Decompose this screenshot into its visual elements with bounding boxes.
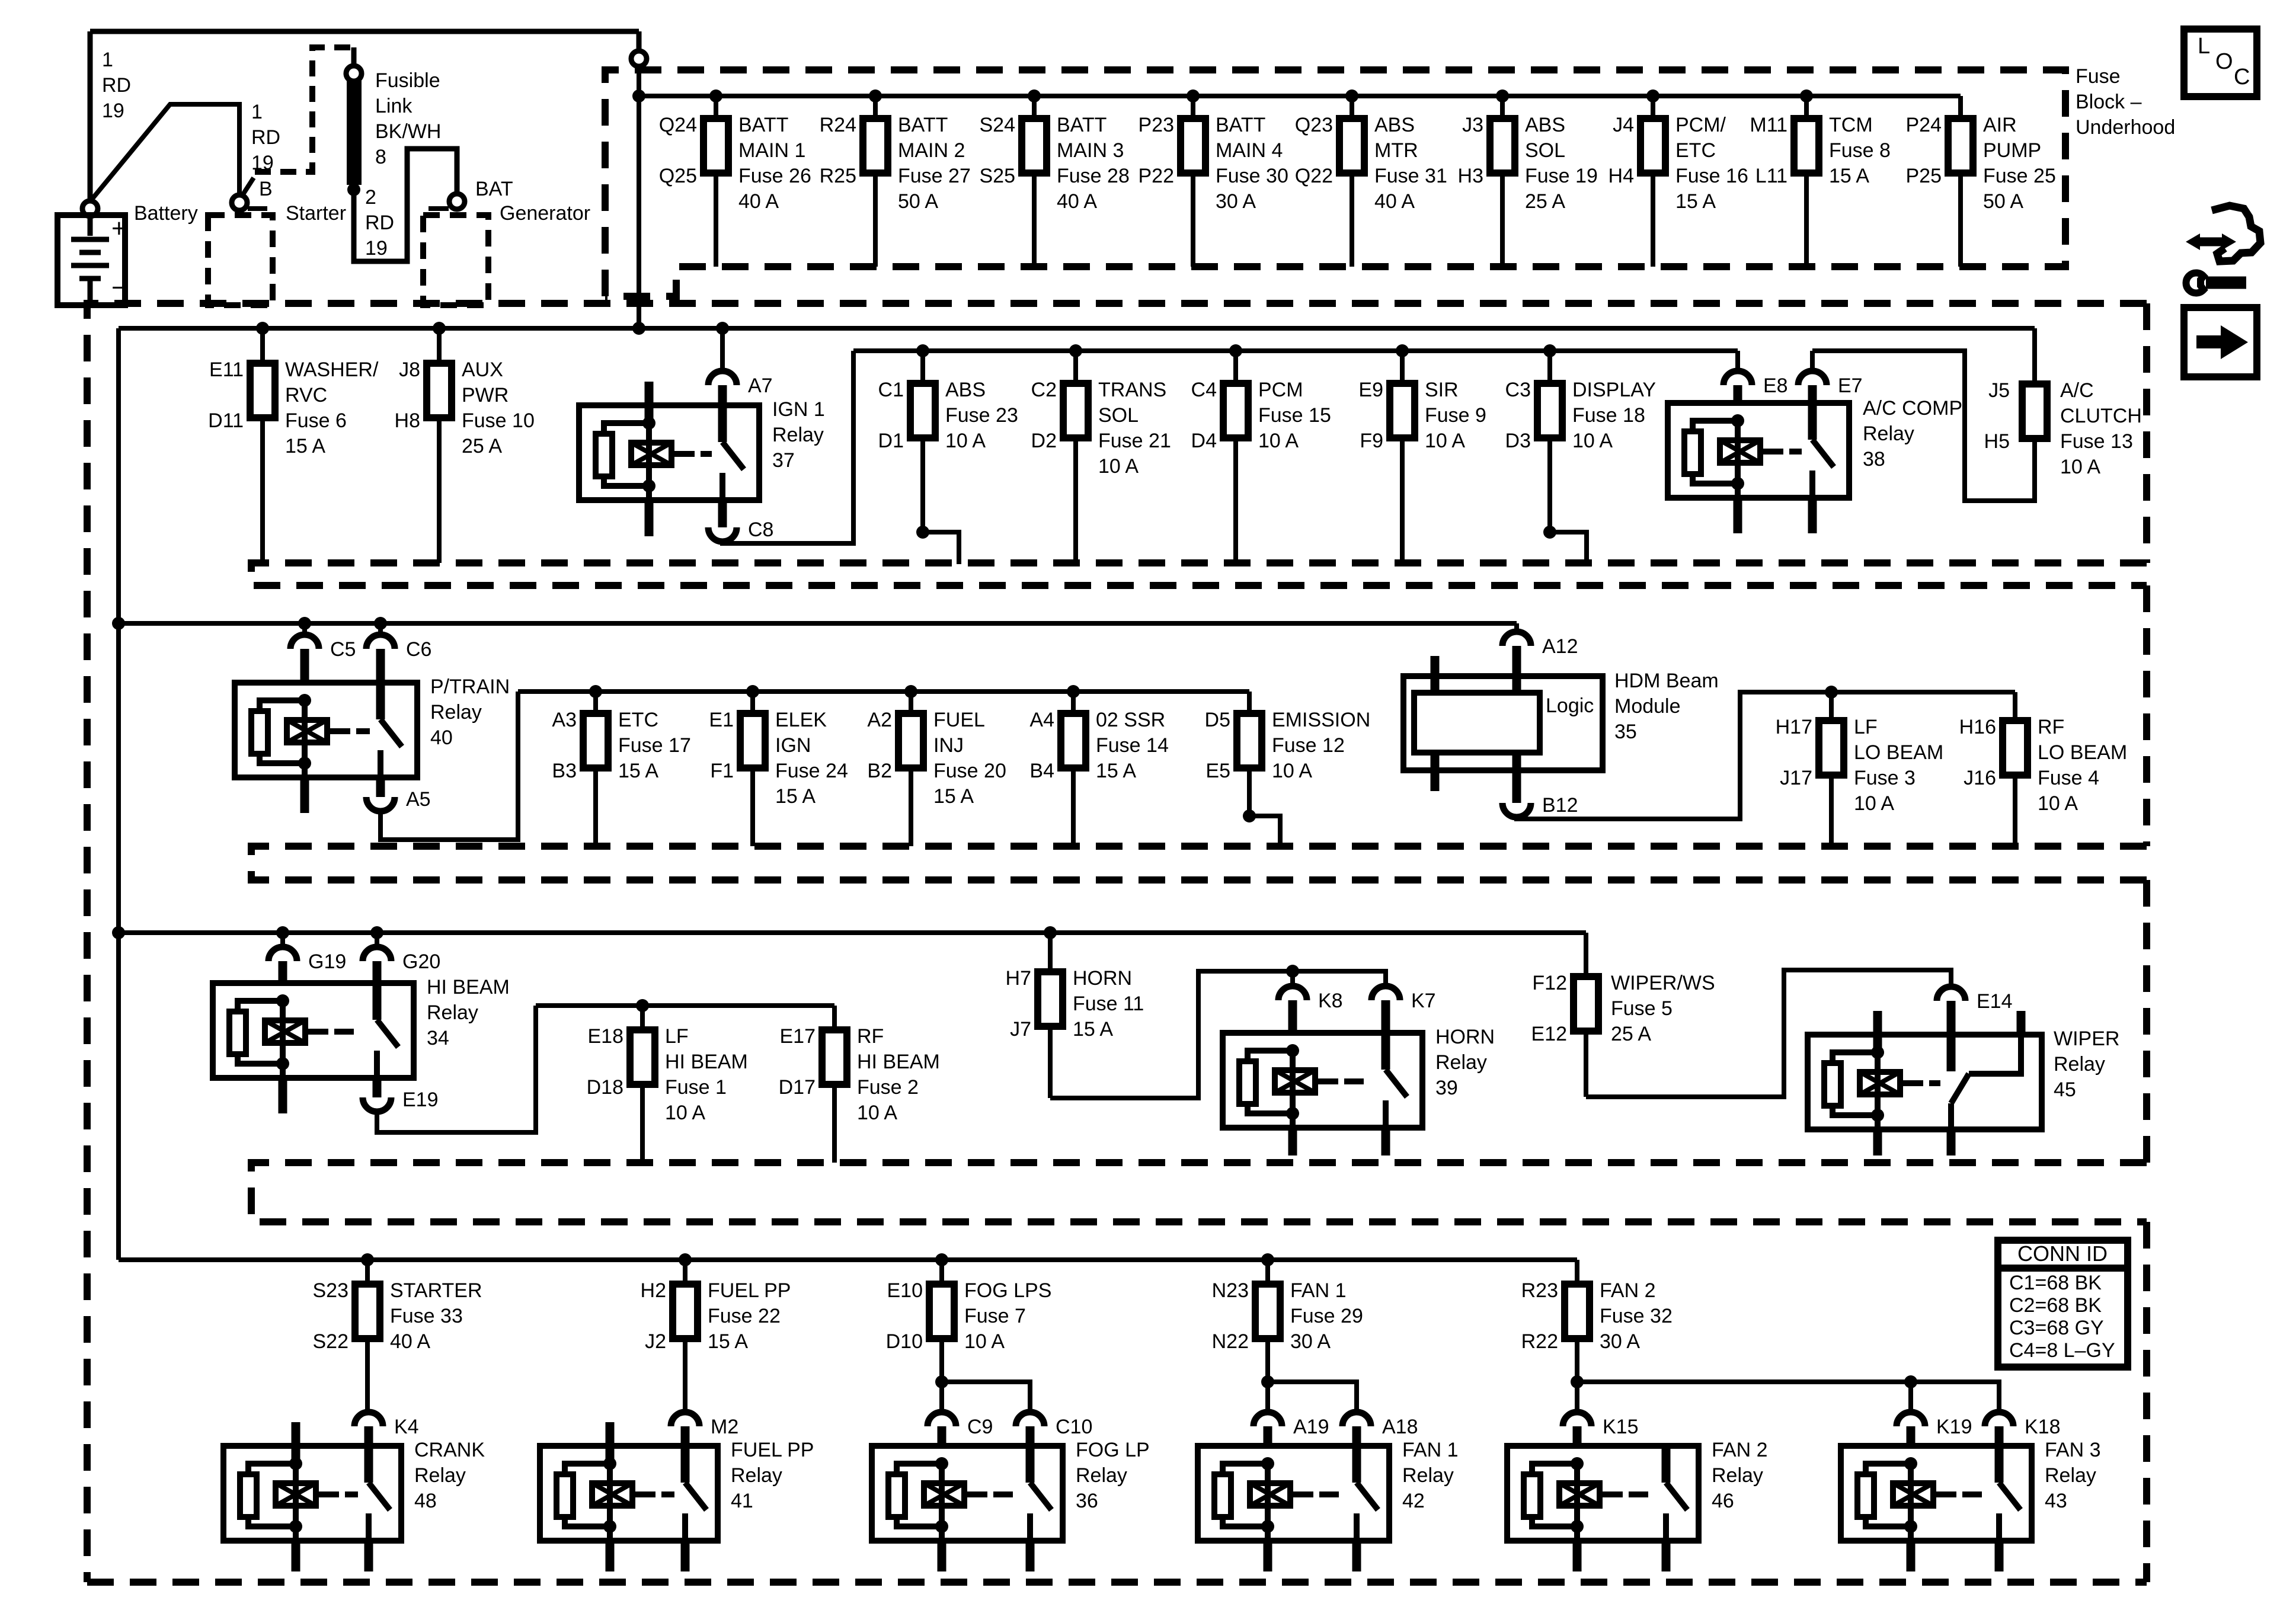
wire fan2 to fan3 feed xyxy=(1577,1375,1999,1412)
starter (dashed box) xyxy=(208,215,273,305)
label fuse 27 name xyxy=(898,114,971,213)
wire fuse 31 drop xyxy=(1345,89,1358,267)
svg-text:HDM Beam: HDM Beam xyxy=(1614,670,1719,692)
label fuse 25 name xyxy=(1983,114,2056,213)
svg-text:Fuse 4: Fuse 4 xyxy=(2038,767,2099,789)
wire fuse 19 drop xyxy=(1496,89,1509,267)
wire fuse 33 drop xyxy=(361,1253,374,1284)
label F6 pins xyxy=(208,359,244,432)
svg-text:15 A: 15 A xyxy=(708,1330,748,1353)
svg-text:S24: S24 xyxy=(980,114,1016,136)
svg-text:K19: K19 xyxy=(1936,1416,1972,1438)
fuse block outer dashed bottom xyxy=(87,1579,2147,1586)
svg-text:Relay: Relay xyxy=(1402,1464,1454,1487)
fuse F19 (ABS SOL) xyxy=(1490,119,1515,173)
wire R22 split xyxy=(1571,1339,1584,1412)
label F20 pins xyxy=(867,709,892,782)
fuse F21 (TRANS) xyxy=(1063,383,1088,438)
relay U39 HORN xyxy=(1223,1033,1422,1128)
fuse F17 (ETC) xyxy=(583,713,608,768)
svg-text:MAIN 1: MAIN 1 xyxy=(738,139,805,162)
label F13 name xyxy=(2060,379,2142,478)
svg-text:Fuse 15: Fuse 15 xyxy=(1258,404,1331,427)
svg-text:E8: E8 xyxy=(1763,375,1788,397)
svg-text:Fuse 31: Fuse 31 xyxy=(1374,165,1447,187)
label A/C COMP Relay 38 xyxy=(1863,397,1962,470)
svg-text:BATT: BATT xyxy=(1216,114,1265,136)
svg-text:E18: E18 xyxy=(588,1025,624,1048)
svg-text:A2: A2 xyxy=(867,709,892,731)
svg-text:Logic: Logic xyxy=(1546,694,1594,717)
svg-text:A7: A7 xyxy=(748,375,773,397)
svg-text:EMISSION: EMISSION xyxy=(1272,709,1370,731)
fuse F2 RF HI BEAM xyxy=(822,1030,847,1084)
connector G19 xyxy=(268,926,346,983)
svg-text:8: 8 xyxy=(375,146,386,168)
connector M2 xyxy=(671,1412,738,1446)
wire washer fuse drop xyxy=(256,322,269,563)
svg-text:H16: H16 xyxy=(1959,716,1996,738)
relay U46 FAN 2 xyxy=(1507,1446,1699,1541)
svg-text:L: L xyxy=(2198,34,2210,59)
svg-text:E9: E9 xyxy=(1358,379,1383,401)
wire C8 to row2 fuse bus xyxy=(722,351,853,543)
label F12 name xyxy=(1272,709,1370,782)
svg-text:SIR: SIR xyxy=(1425,379,1459,401)
svg-text:SOL: SOL xyxy=(1525,139,1565,162)
fuse block row1 dashed outline xyxy=(605,70,2065,296)
wire main feed vertical xyxy=(637,31,642,328)
relay U37 IGN 1 xyxy=(579,405,759,500)
svg-text:D2: D2 xyxy=(1031,430,1057,452)
fuse block dashed row3/4 gap xyxy=(251,846,2147,880)
rail left vertical xyxy=(116,328,121,1260)
svg-text:Fuse 7: Fuse 7 xyxy=(964,1305,1026,1327)
pin IGN1 coil bottom stub xyxy=(645,500,654,536)
label F14 name xyxy=(1096,709,1169,782)
connector B12 xyxy=(1502,753,1578,817)
svg-text:S23: S23 xyxy=(313,1279,349,1302)
svg-text:MTR: MTR xyxy=(1374,139,1418,162)
wire E19 to hi-beam fuse bus xyxy=(377,1006,536,1132)
svg-text:25 A: 25 A xyxy=(1611,1023,1651,1045)
connector C5 xyxy=(290,617,356,683)
svg-text:INJ: INJ xyxy=(933,734,964,757)
label IGN 1 Relay 37 xyxy=(772,398,825,472)
wire row2 bus to J5 xyxy=(2032,328,2037,384)
svg-text:P22: P22 xyxy=(1139,165,1175,187)
svg-text:A12: A12 xyxy=(1542,635,1578,658)
bus hi beam fuses xyxy=(536,1003,834,1008)
bus lo beam xyxy=(1831,690,2015,694)
svg-text:Fuse 16: Fuse 16 xyxy=(1675,165,1748,187)
label F4 name xyxy=(2038,716,2127,815)
label fuse 26 pins xyxy=(659,114,697,187)
label F22 pins xyxy=(641,1279,666,1353)
label F1 name xyxy=(665,1025,748,1124)
svg-text:WIPER/WS: WIPER/WS xyxy=(1611,972,1715,994)
label F10 name xyxy=(462,359,535,457)
svg-text:15 A: 15 A xyxy=(933,785,974,808)
pin HIBEAM coil bottom stub xyxy=(279,1078,287,1113)
svg-text:SOL: SOL xyxy=(1098,404,1139,427)
connector A7 xyxy=(708,371,773,405)
fuse F8 (TCM) xyxy=(1794,119,1819,173)
svg-text:Relay: Relay xyxy=(1863,422,1914,445)
pin U46 switch bottom stub xyxy=(1662,1541,1671,1571)
fuse block dashed row2/3 gap xyxy=(251,563,2147,585)
connector G20 xyxy=(363,926,440,983)
svg-text:15 A: 15 A xyxy=(1073,1018,1113,1041)
svg-text:HORN: HORN xyxy=(1435,1026,1495,1048)
svg-text:RF: RF xyxy=(857,1025,884,1048)
node starter B terminal xyxy=(232,195,267,210)
svg-text:LF: LF xyxy=(665,1025,689,1048)
pin U46 coil bottom stub xyxy=(1573,1541,1582,1571)
label F11 pins xyxy=(1006,967,1031,1041)
svg-text:Fuse 30: Fuse 30 xyxy=(1216,165,1288,187)
svg-text:A/C: A/C xyxy=(2060,379,2094,402)
fuse F23 (ABS) xyxy=(910,383,935,438)
svg-text:A/C COMP: A/C COMP xyxy=(1863,397,1962,420)
svg-text:MAIN 2: MAIN 2 xyxy=(898,139,965,162)
svg-text:Fuse 20: Fuse 20 xyxy=(933,760,1006,782)
svg-text:Fuse 14: Fuse 14 xyxy=(1096,734,1169,757)
label fuse 19 pins xyxy=(1458,114,1483,187)
fuse F11 HORN xyxy=(1038,972,1063,1026)
svg-text:40 A: 40 A xyxy=(1374,190,1415,213)
wire A7 feed xyxy=(716,322,729,371)
pin U41 coil top stub xyxy=(606,1422,615,1464)
svg-text:RD: RD xyxy=(365,212,394,234)
pin PTRAIN coil bottom stub xyxy=(300,777,309,813)
svg-text:Fuse 5: Fuse 5 xyxy=(1611,997,1673,1020)
wire fuse 30 drop xyxy=(1187,89,1200,267)
pin ACCOMP coil bottom stub xyxy=(1734,498,1742,533)
svg-text:D5: D5 xyxy=(1205,709,1230,731)
icon forward arrow box xyxy=(2184,308,2257,377)
svg-text:Starter: Starter xyxy=(286,202,346,225)
svg-text:Relay: Relay xyxy=(772,424,824,446)
relay U42 FAN 1 xyxy=(1198,1446,1389,1541)
svg-text:Link: Link xyxy=(375,95,412,117)
wire fuse 26 drop xyxy=(709,89,722,267)
svg-text:LO BEAM: LO BEAM xyxy=(1854,741,1943,764)
icon LOC box xyxy=(2184,29,2257,97)
wire S22 to K4 xyxy=(365,1339,370,1412)
svg-text:ETC: ETC xyxy=(1675,139,1716,162)
wire J5 to E7 xyxy=(1812,351,2035,501)
svg-text:F9: F9 xyxy=(1360,430,1383,452)
svg-text:ABS: ABS xyxy=(945,379,986,401)
fuse F7 (FOG LPS) xyxy=(929,1284,954,1339)
connector K4 xyxy=(354,1412,419,1446)
label fuse 25 pins xyxy=(1906,114,1942,187)
bus row2 xyxy=(119,322,2035,335)
svg-text:K7: K7 xyxy=(1411,990,1436,1012)
fuse F28 (BATT MAIN 3) xyxy=(1022,119,1047,173)
relay U38 A/C COMP xyxy=(1668,403,1849,498)
svg-text:Fuse 13: Fuse 13 xyxy=(2060,430,2133,453)
svg-text:A18: A18 xyxy=(1382,1416,1418,1438)
svg-text:37: 37 xyxy=(772,449,795,472)
svg-text:10 A: 10 A xyxy=(857,1102,897,1124)
label FOG LP Relay 36 xyxy=(1076,1439,1150,1512)
svg-text:IGN 1: IGN 1 xyxy=(772,398,825,421)
svg-text:Relay: Relay xyxy=(414,1464,466,1487)
bus row3 fuses xyxy=(518,689,1249,694)
label F3 pins xyxy=(1776,716,1812,789)
label F32 pins xyxy=(1521,1279,1558,1353)
svg-text:PCM/: PCM/ xyxy=(1675,114,1726,136)
wire row3 fuse exit x1811 xyxy=(1071,768,1076,846)
svg-text:N23: N23 xyxy=(1212,1279,1249,1302)
label F21 pins xyxy=(1031,379,1057,452)
svg-text:C10: C10 xyxy=(1056,1416,1092,1438)
svg-text:J8: J8 xyxy=(399,359,420,381)
svg-text:Fuse 28: Fuse 28 xyxy=(1057,165,1130,187)
fusible link BK/WH 8 xyxy=(347,81,362,185)
svg-text:E10: E10 xyxy=(887,1279,923,1302)
wire F2 drop xyxy=(832,1006,837,1163)
svg-text:1: 1 xyxy=(102,49,113,71)
connector A19 xyxy=(1253,1412,1329,1446)
pin WIPER coil bottom stub xyxy=(1873,1129,1882,1156)
pin U42 coil bottom stub xyxy=(1264,1541,1272,1571)
svg-text:E7: E7 xyxy=(1838,375,1863,397)
fuse F10 AUX PWR xyxy=(427,363,452,418)
fuse F25 (AIR PUMP) xyxy=(1948,119,1973,173)
svg-text:45: 45 xyxy=(2054,1078,2076,1101)
svg-text:H4: H4 xyxy=(1609,165,1634,187)
svg-text:Fuse 17: Fuse 17 xyxy=(618,734,691,757)
label FAN 3 Relay 43 xyxy=(2045,1439,2100,1512)
label F32 name xyxy=(1600,1279,1673,1353)
pin U48 coil top stub xyxy=(292,1422,300,1464)
svg-text:35: 35 xyxy=(1614,721,1637,743)
svg-text:02 SSR: 02 SSR xyxy=(1096,709,1165,731)
label F22 name xyxy=(708,1279,791,1353)
svg-text:PCM: PCM xyxy=(1258,379,1303,401)
svg-text:WASHER/: WASHER/ xyxy=(285,359,379,381)
generator (dashed box) xyxy=(423,215,488,305)
svg-text:39: 39 xyxy=(1435,1077,1458,1099)
svg-text:Underhood: Underhood xyxy=(2076,116,2175,139)
svg-text:R22: R22 xyxy=(1521,1330,1558,1353)
pin U43 coil bottom stub xyxy=(1907,1541,1916,1571)
svg-text:50 A: 50 A xyxy=(898,190,938,213)
label fuse 28 pins xyxy=(980,114,1016,187)
svg-text:Relay: Relay xyxy=(2045,1464,2096,1487)
svg-text:H5: H5 xyxy=(1984,430,2010,453)
svg-text:TRANS: TRANS xyxy=(1098,379,1166,401)
svg-text:K18: K18 xyxy=(2025,1416,2061,1438)
svg-text:D10: D10 xyxy=(886,1330,923,1353)
node feed terminal xyxy=(631,51,647,66)
svg-text:F12: F12 xyxy=(1532,972,1567,994)
label fuse 27 pins xyxy=(820,114,856,187)
pin HDM bottom-left stub xyxy=(1431,753,1440,791)
label F9 pins xyxy=(1358,379,1383,452)
connector K18 xyxy=(1985,1412,2061,1446)
svg-text:15 A: 15 A xyxy=(1675,190,1716,213)
label FUEL PP Relay 41 xyxy=(731,1439,814,1512)
svg-text:O: O xyxy=(2215,49,2233,74)
pin WIPER switch bottom stub xyxy=(1947,1129,1956,1156)
svg-text:C4=8 L–GY: C4=8 L–GY xyxy=(2009,1339,2115,1362)
pin U42 switch bottom stub xyxy=(1352,1541,1361,1571)
svg-text:K15: K15 xyxy=(1603,1416,1639,1438)
wire fuse 8 drop xyxy=(1800,89,1813,267)
svg-text:AUX: AUX xyxy=(462,359,503,381)
label fuse 8 pins xyxy=(1750,114,1787,187)
label fuse 16 name xyxy=(1675,114,1748,213)
svg-text:RVC: RVC xyxy=(285,384,327,406)
svg-text:1: 1 xyxy=(251,101,263,123)
svg-text:C: C xyxy=(2234,65,2250,89)
label F20 name xyxy=(933,709,1006,808)
label F6 name xyxy=(285,359,379,457)
svg-text:FAN 2: FAN 2 xyxy=(1600,1279,1655,1302)
svg-text:15 A: 15 A xyxy=(1096,760,1136,782)
svg-text:BK/WH: BK/WH xyxy=(375,120,441,143)
svg-text:R23: R23 xyxy=(1521,1279,1558,1302)
wire fuse 7 drop xyxy=(935,1253,948,1284)
fuse F24 (ELEK) xyxy=(740,713,765,768)
svg-text:D4: D4 xyxy=(1191,430,1217,452)
wire B12 to lo-beam bus xyxy=(1517,692,1831,819)
svg-text:Battery: Battery xyxy=(134,202,198,225)
svg-text:Fuse 3: Fuse 3 xyxy=(1854,767,1916,789)
label FAN 2 Relay 46 xyxy=(1712,1439,1767,1512)
label HI BEAM Relay 34 xyxy=(427,976,510,1049)
svg-text:Block –: Block – xyxy=(2076,91,2142,113)
svg-text:Fuse 2: Fuse 2 xyxy=(857,1076,919,1099)
pin U41 coil bottom stub xyxy=(606,1541,615,1571)
wire row3 fuse exit x1005 xyxy=(593,768,598,846)
label F10 pins xyxy=(395,359,420,432)
svg-text:K4: K4 xyxy=(394,1416,419,1438)
svg-text:D18: D18 xyxy=(587,1076,623,1099)
svg-text:H3: H3 xyxy=(1458,165,1483,187)
label F4 pins xyxy=(1959,716,1996,789)
svg-text:FOG LPS: FOG LPS xyxy=(964,1279,1051,1302)
label F23 pins xyxy=(878,379,904,452)
fuse F4 RF LO BEAM xyxy=(2003,721,2028,775)
svg-text:E19: E19 xyxy=(402,1089,439,1111)
svg-text:Fuse 18: Fuse 18 xyxy=(1572,404,1645,427)
node bus row1 tap xyxy=(632,89,645,103)
fuse F26 (BATT MAIN 1) xyxy=(703,119,728,173)
connector A12 xyxy=(1502,632,1578,693)
svg-text:STARTER: STARTER xyxy=(390,1279,482,1302)
wire A5 to row3 fuse bus xyxy=(380,692,518,840)
svg-text:BATT: BATT xyxy=(1057,114,1107,136)
svg-text:M11: M11 xyxy=(1750,114,1787,136)
svg-text:25 A: 25 A xyxy=(462,435,502,457)
pin U48 coil bottom stub xyxy=(292,1541,300,1571)
svg-text:−: − xyxy=(111,273,127,302)
wire fuse 28 drop xyxy=(1028,89,1041,267)
label F18 pins xyxy=(1505,379,1531,452)
svg-text:FOG LP: FOG LP xyxy=(1076,1439,1150,1461)
wire aux pwr fuse drop xyxy=(433,322,446,563)
svg-text:10 A: 10 A xyxy=(1098,455,1139,478)
connector E8 xyxy=(1723,351,1788,403)
svg-text:ABS: ABS xyxy=(1525,114,1565,136)
svg-text:10 A: 10 A xyxy=(1272,760,1312,782)
connector C8 xyxy=(708,500,773,542)
svg-text:E1: E1 xyxy=(709,709,734,731)
svg-text:43: 43 xyxy=(2045,1490,2067,1512)
wire row3 fuse exit x1270 xyxy=(750,768,755,846)
svg-text:R25: R25 xyxy=(820,165,856,187)
svg-text:N22: N22 xyxy=(1212,1330,1249,1353)
svg-text:Fuse 26: Fuse 26 xyxy=(738,165,811,187)
svg-text:A5: A5 xyxy=(406,788,431,811)
svg-text:10 A: 10 A xyxy=(945,430,986,452)
svg-text:Relay: Relay xyxy=(731,1464,782,1487)
fuse F22 (FUEL PP) xyxy=(673,1284,698,1339)
svg-text:S22: S22 xyxy=(313,1330,349,1353)
label F3 name xyxy=(1854,716,1943,815)
pin WIPER coil top stub xyxy=(1873,1011,1882,1052)
svg-text:C1: C1 xyxy=(878,379,904,401)
svg-text:J3: J3 xyxy=(1462,114,1483,136)
wire fuse 27 drop xyxy=(869,89,882,267)
svg-text:19: 19 xyxy=(102,100,124,122)
label fuse 31 pins xyxy=(1295,114,1333,187)
svg-text:Fusible: Fusible xyxy=(375,69,440,92)
svg-text:E17: E17 xyxy=(780,1025,816,1048)
svg-text:HORN: HORN xyxy=(1073,967,1132,990)
svg-text:Fuse 1: Fuse 1 xyxy=(665,1076,727,1099)
svg-text:CONN ID: CONN ID xyxy=(2017,1241,2108,1266)
svg-text:G19: G19 xyxy=(308,950,346,973)
svg-text:R24: R24 xyxy=(820,114,856,136)
fuse F5 WIPER/WS xyxy=(1574,977,1598,1031)
label fuse 19 name xyxy=(1525,114,1598,213)
svg-text:K8: K8 xyxy=(1318,990,1343,1012)
pin HORN switch bottom stub xyxy=(1382,1128,1390,1156)
connector C10 xyxy=(1016,1412,1092,1446)
connector E7 xyxy=(1798,351,1863,403)
svg-text:Generator: Generator xyxy=(500,202,590,225)
connector K19 xyxy=(1897,1412,1972,1446)
svg-text:ELEK: ELEK xyxy=(775,709,827,731)
svg-text:15 A: 15 A xyxy=(1829,165,1869,187)
svg-text:P/TRAIN: P/TRAIN xyxy=(430,676,510,698)
svg-text:10 A: 10 A xyxy=(1425,430,1465,452)
svg-text:42: 42 xyxy=(1402,1490,1425,1512)
svg-text:Relay: Relay xyxy=(1076,1464,1127,1487)
svg-text:10 A: 10 A xyxy=(1854,792,1894,815)
connector K7 xyxy=(1371,986,1436,1033)
svg-text:FAN 1: FAN 1 xyxy=(1290,1279,1346,1302)
svg-text:L11: L11 xyxy=(1755,165,1787,187)
svg-text:Fuse: Fuse xyxy=(2076,65,2121,88)
svg-text:MAIN 4: MAIN 4 xyxy=(1216,139,1283,162)
icon vehicle wrench xyxy=(2186,206,2260,293)
fuse block dashed right edge r3 xyxy=(2143,585,2150,846)
label 2 RD 19 xyxy=(365,186,394,260)
svg-text:D1: D1 xyxy=(878,430,904,452)
svg-text:Relay: Relay xyxy=(1435,1051,1487,1074)
label F7 pins xyxy=(886,1279,923,1353)
label Battery xyxy=(134,202,198,225)
wire fuse 25 drop xyxy=(1958,96,1963,267)
label P/TRAIN Relay 40 xyxy=(430,676,510,749)
